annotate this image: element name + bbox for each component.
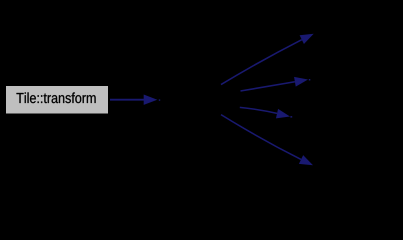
wire edge E5: middle node to bottom-right node (221, 115, 313, 166)
wire edge E3: middle node to upper-middle-right node (241, 77, 311, 91)
wire edge E2: middle node to top-right node (221, 34, 314, 85)
node Tile::transform (6, 86, 108, 114)
wire edge E1: Tile::transform to middle node (110, 95, 160, 105)
wire edge E4: middle node to lower-middle-right node (240, 107, 292, 118)
